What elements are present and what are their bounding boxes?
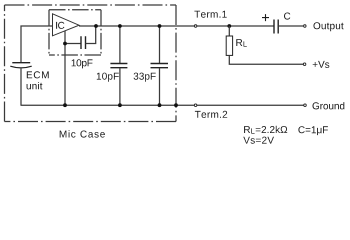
capacitor C3 plates [151,64,169,68]
junction node RL top [227,24,231,28]
wire ECM to IC input [21,26,53,62]
C value annotation [298,126,328,135]
Term.2 label [195,111,227,118]
ground rail inside case [21,104,304,106]
feedback cap left connector [65,43,81,45]
ECM capsule top plate [12,62,30,64]
terminal Term.1 circle [194,25,197,28]
junction node rail 1 [63,103,67,107]
resistor RL label [236,39,247,47]
Ground terminal circle [304,104,307,107]
mic case border (dash-dot rectangle) [5,5,177,122]
capacitor C plates [274,20,278,34]
capacitor C polarity plus [262,14,269,21]
Term.1 label [194,11,226,18]
ECM capsule curved plate [10,66,31,68]
+Vs terminal circle [303,63,306,66]
junction node cap C3 top [158,24,162,28]
junction node cap C2 top [118,24,122,28]
capacitor C2 lower wire [119,68,121,105]
33pF value label [134,73,156,82]
Output label [314,22,344,31]
output wire after cap [278,25,303,27]
capacitor C3 33pF shunt: upper wire [159,26,161,63]
IC package box (dash-dot) [49,10,101,55]
op-amp IC triangle [53,14,80,36]
RL lower wire to +Vs [229,55,303,64]
feedback cap right connector up to output node [86,26,96,44]
RL value annotation [244,126,287,134]
junction node case-ground [174,103,178,107]
capacitor C3 lower wire [159,68,161,105]
junction node rail 3 [158,103,162,107]
capacitor C2 10pF shunt: upper wire [119,26,121,63]
ECM unit label [27,71,49,78]
Output terminal circle [304,25,307,28]
10pF shunt value label [97,73,119,82]
capacitor C2 plates [110,64,127,68]
top signal wire [79,25,274,27]
Ground label [313,102,345,109]
capacitor feedback 10pF plates [81,36,86,49]
junction node output of IC [94,24,98,28]
feedback 10pF value label [72,59,93,68]
Mic Case caption [60,130,105,137]
+Vs label [313,61,330,68]
Vs value annotation [243,137,274,144]
feedback tap wire from triangle to ground rail [64,31,66,106]
ECM lower wire [20,69,22,106]
terminal Term.2 circle [194,104,197,107]
capacitor C label [284,13,290,20]
resistor RL branch wire upper [228,26,230,36]
junction node rail 2 [118,103,122,107]
junction node feedback tap [63,42,67,46]
IC label [56,22,64,29]
resistor RL body [226,36,232,55]
